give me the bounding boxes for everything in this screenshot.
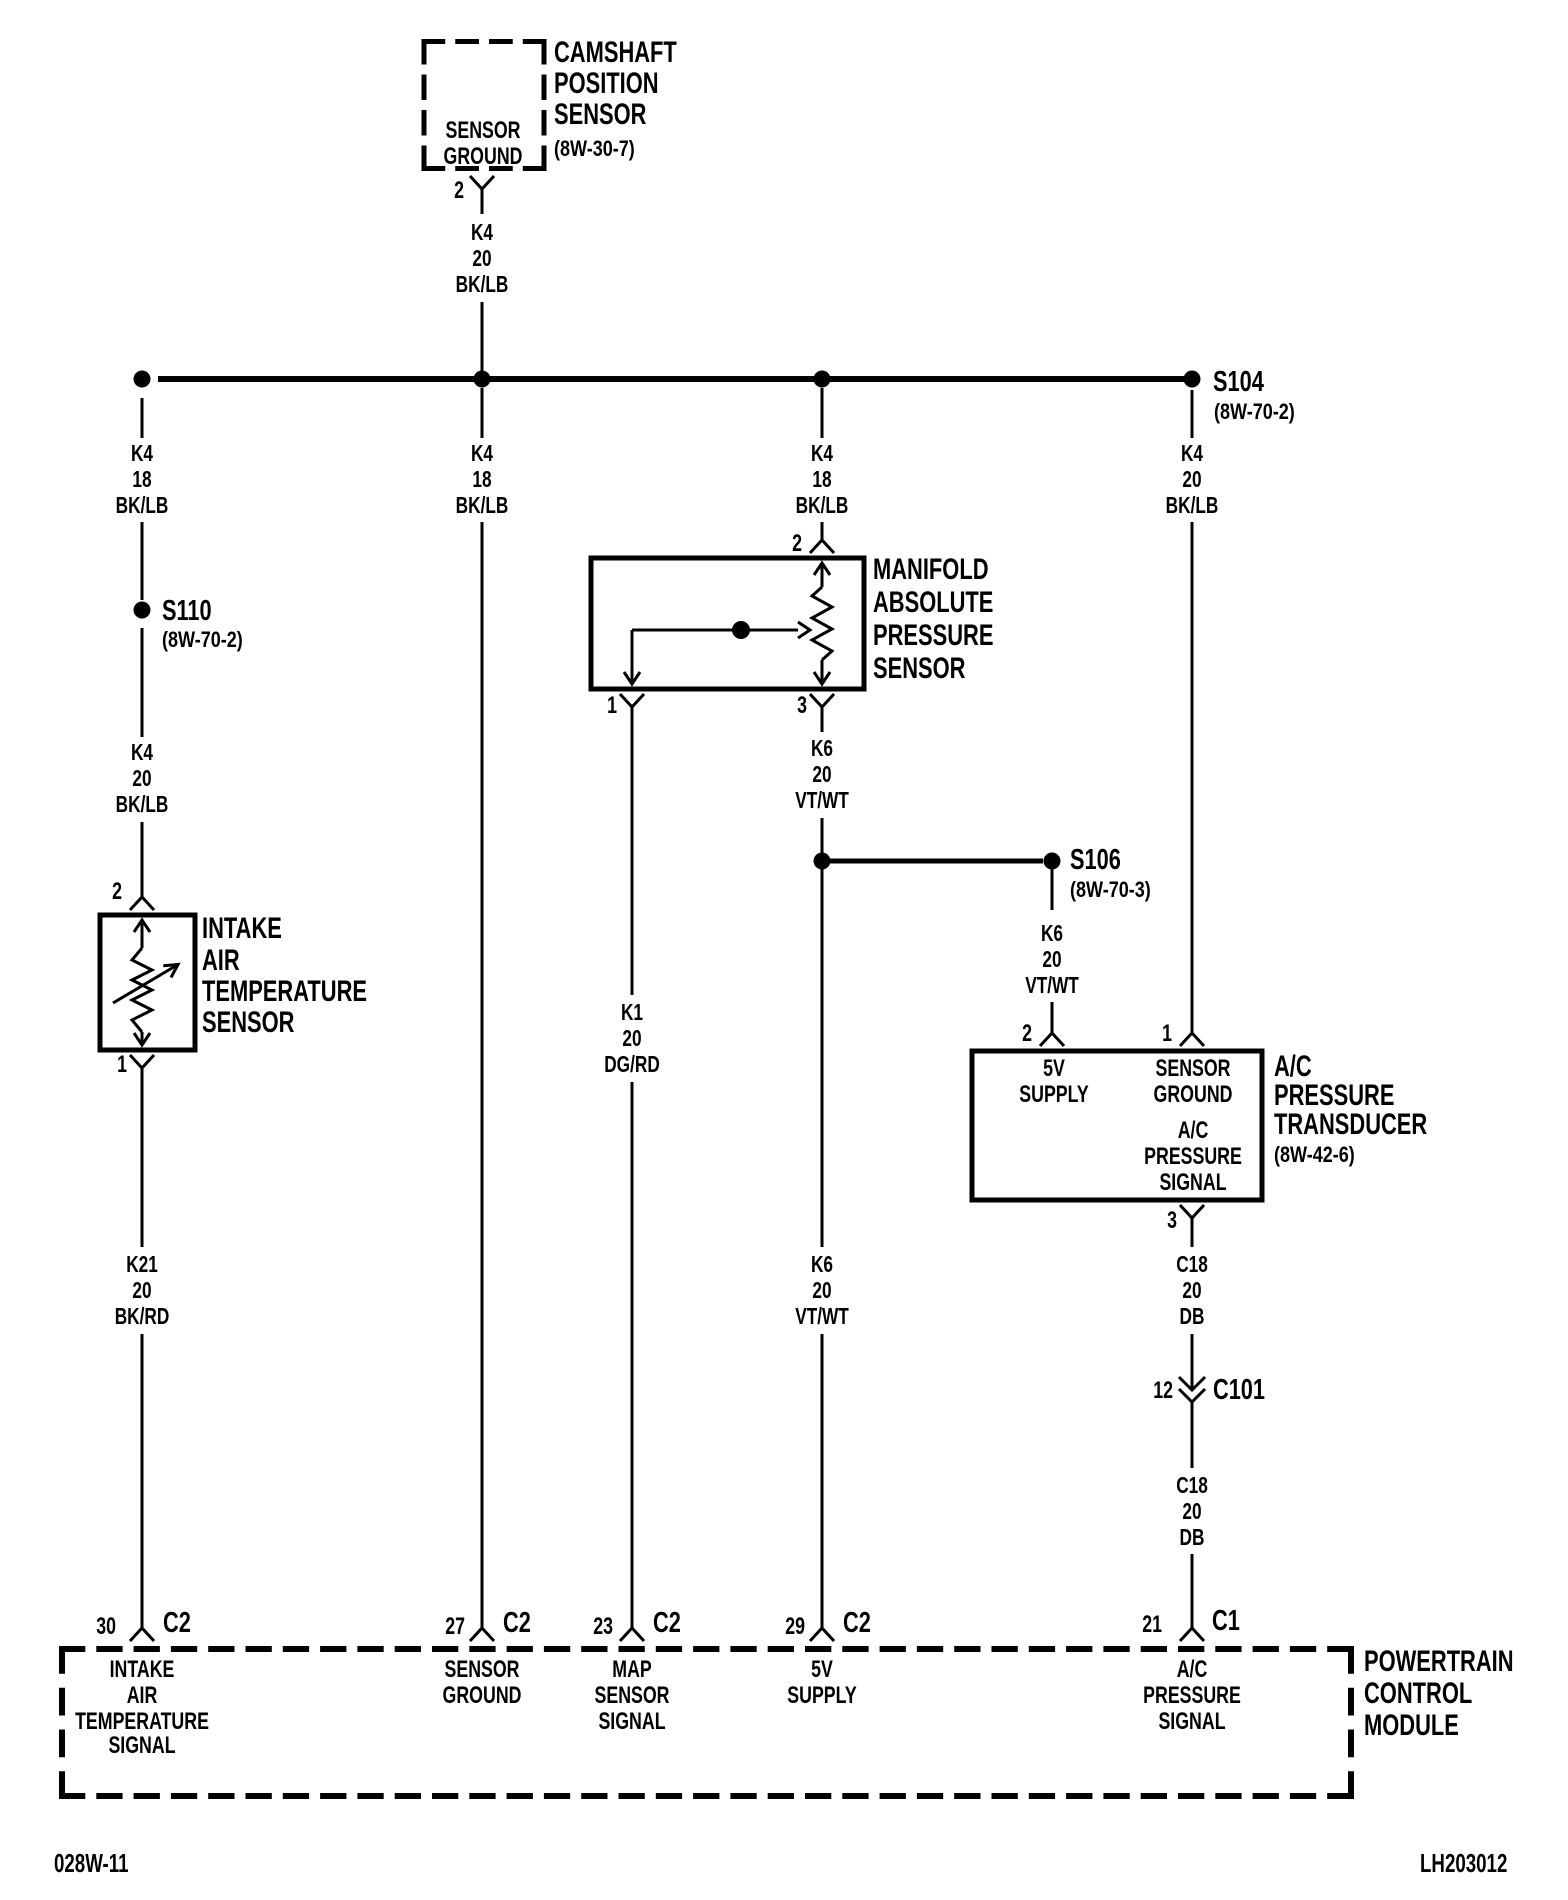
svg-text:K4: K4 — [471, 442, 494, 467]
wire label K4 20 BK/LB (branch F) — [1166, 442, 1219, 519]
wire label K1 20 DG/RD — [604, 1001, 660, 1078]
wire S110 down — [141, 628, 144, 737]
sheet code LH203012 — [1420, 1848, 1507, 1878]
svg-text:5V: 5V — [811, 1657, 833, 1683]
wire branch F to A/C transducer pin 1 — [1191, 522, 1194, 1033]
svg-text:C2: C2 — [503, 1607, 531, 1639]
in-line connector C101 (double chevron) — [1179, 1377, 1205, 1402]
connector designator C101 — [1213, 1374, 1265, 1406]
junction dot (bus, branch D) — [814, 371, 831, 388]
svg-text:A/C: A/C — [1177, 1657, 1208, 1683]
svg-text:LH203012: LH203012 — [1420, 1848, 1507, 1878]
pin 27 label — [445, 1614, 465, 1640]
wire C101 down — [1191, 1402, 1194, 1468]
svg-text:20: 20 — [132, 1279, 151, 1304]
svg-text:20: 20 — [1182, 1500, 1201, 1525]
wire to S106 splice — [830, 859, 1043, 864]
wire to A/C transducer pin 2 — [1051, 1002, 1054, 1033]
svg-text:DB: DB — [1180, 1526, 1205, 1551]
svg-text:SENSOR: SENSOR — [873, 651, 965, 685]
wire label C18 20 DB (lower) — [1176, 1474, 1208, 1551]
svg-text:21: 21 — [1142, 1612, 1162, 1638]
svg-text:BK/LB: BK/LB — [456, 273, 509, 298]
svg-text:PRESSURE: PRESSURE — [1143, 1683, 1241, 1709]
svg-text:23: 23 — [593, 1614, 613, 1640]
svg-text:K6: K6 — [811, 1253, 833, 1278]
svg-text:VT/WT: VT/WT — [795, 789, 849, 814]
pin 1 label (IAT sensor) — [117, 1052, 127, 1078]
wire branch D from bus — [821, 388, 824, 438]
svg-text:MODULE: MODULE — [1364, 1708, 1459, 1742]
svg-text:C1: C1 — [1212, 1605, 1240, 1637]
pin 23 label — [593, 1614, 613, 1640]
svg-text:TEMPERATURE: TEMPERATURE — [75, 1709, 209, 1735]
wire branch A to splice S110 — [141, 522, 144, 600]
svg-text:PRESSURE: PRESSURE — [873, 618, 993, 652]
connector designator C2 (pin 29) — [843, 1607, 871, 1639]
pin 2 label (A/C transducer) — [1022, 1021, 1032, 1047]
svg-text:K4: K4 — [1181, 442, 1204, 467]
svg-text:BK/LB: BK/LB — [456, 494, 509, 519]
svg-text:TEMPERATURE: TEMPERATURE — [202, 974, 367, 1008]
svg-text:SENSOR: SENSOR — [1155, 1056, 1230, 1082]
wire label K4 20 BK/LB (camshaft drop) — [456, 221, 509, 298]
svg-text:SUPPLY: SUPPLY — [787, 1683, 856, 1709]
svg-text:C2: C2 — [163, 1607, 191, 1639]
svg-text:3: 3 — [797, 693, 807, 719]
wire label K21 20 BK/RD — [115, 1253, 170, 1330]
wire label K4 18 BK/LB (branch A) — [116, 442, 169, 519]
svg-text:29: 29 — [785, 1614, 805, 1640]
svg-text:27: 27 — [445, 1614, 465, 1640]
svg-text:GROUND: GROUND — [443, 1683, 522, 1709]
title A/C PRESSURE TRANSDUCER (8W-42-6) — [1274, 1049, 1427, 1168]
connector fork pin 1 MAP — [620, 694, 644, 707]
svg-text:18: 18 — [812, 468, 831, 493]
wire label K6 20 VT/WT (branch E) — [1025, 922, 1079, 999]
svg-text:1: 1 — [607, 693, 617, 719]
svg-text:S106: S106 — [1070, 844, 1121, 876]
wire to PCM pin 21 — [1191, 1554, 1194, 1628]
junction dot on wiper arm — [732, 621, 750, 639]
label MAP SENSOR SIGNAL (PCM) — [594, 1657, 669, 1735]
connector fork pin 3 MAP — [810, 694, 834, 707]
svg-text:SIGNAL: SIGNAL — [1158, 1709, 1225, 1735]
svg-text:028W-11: 028W-11 — [54, 1848, 129, 1878]
label 5V SUPPLY inside A/C box — [1019, 1056, 1088, 1108]
wire to PCM pin 29 — [821, 1334, 824, 1628]
pin 30 label — [96, 1614, 116, 1640]
junction dot (branch D / S106 tap) — [814, 853, 831, 870]
svg-text:MAP: MAP — [612, 1657, 651, 1683]
connector designator C2 (pin 27) — [503, 1607, 531, 1639]
label SENSOR GROUND inside camshaft box — [444, 118, 523, 170]
wire IAT pin1 down — [141, 1068, 144, 1247]
svg-text:C18: C18 — [1176, 1253, 1208, 1278]
svg-text:(8W-70-2): (8W-70-2) — [1214, 400, 1295, 424]
svg-text:BK/RD: BK/RD — [115, 1305, 170, 1330]
title CAMSHAFT POSITION SENSOR (8W-30-7) — [554, 35, 677, 162]
splice dot S110 — [134, 602, 151, 619]
svg-text:BK/LB: BK/LB — [116, 494, 169, 519]
svg-text:K6: K6 — [1041, 922, 1063, 947]
connector fork PCM pin 29 — [810, 1628, 834, 1641]
connector fork pin 2 A/C transducer — [1040, 1033, 1064, 1046]
junction dot (bus, branch B) — [474, 371, 491, 388]
svg-text:K4: K4 — [131, 741, 154, 766]
connector fork pin 1 IAT — [130, 1055, 154, 1068]
svg-text:SUPPLY: SUPPLY — [1019, 1082, 1088, 1108]
svg-text:2: 2 — [112, 879, 122, 905]
svg-text:SENSOR: SENSOR — [594, 1683, 669, 1709]
connector designator C2 (pin 23) — [653, 1607, 681, 1639]
svg-text:(8W-42-6): (8W-42-6) — [1274, 1143, 1355, 1167]
sheet code 028W-11 — [54, 1848, 129, 1878]
svg-text:PRESSURE: PRESSURE — [1144, 1144, 1242, 1170]
svg-text:BK/LB: BK/LB — [1166, 494, 1219, 519]
wire branch F from S104 — [1191, 390, 1194, 438]
svg-text:5V: 5V — [1043, 1056, 1065, 1082]
wire branch B to PCM pin 27 — [481, 522, 484, 1628]
svg-text:12: 12 — [1153, 1378, 1173, 1404]
splice dot S106 — [1044, 853, 1061, 870]
svg-text:MANIFOLD: MANIFOLD — [873, 552, 989, 586]
wire label K4 20 BK/LB (branch A lower) — [116, 741, 169, 818]
label INTAKE AIR TEMPERATURE SIGNAL (PCM) — [75, 1657, 209, 1759]
svg-text:SENSOR: SENSOR — [202, 1005, 294, 1039]
wire branch D to MAP pin 2 — [821, 522, 824, 540]
connector fork pin 2 MAP — [810, 540, 834, 553]
svg-text:SIGNAL: SIGNAL — [108, 1733, 175, 1759]
wire label C18 20 DB (upper) — [1176, 1253, 1208, 1330]
connector designator C2 (pin 30) — [163, 1607, 191, 1639]
svg-text:30: 30 — [96, 1614, 116, 1640]
pin 2 label (camshaft) — [454, 178, 464, 204]
svg-text:18: 18 — [472, 468, 491, 493]
wire to splice S106 junction — [821, 818, 824, 853]
connector fork pin 2 camshaft — [470, 176, 494, 214]
svg-text:C18: C18 — [1176, 1474, 1208, 1499]
svg-text:1: 1 — [1162, 1021, 1172, 1047]
wire to IAT sensor pin 2 — [141, 822, 144, 897]
connector fork pin 1 A/C transducer — [1180, 1033, 1204, 1046]
wire label K6 20 VT/WT (lower) — [795, 1253, 849, 1330]
svg-text:K6: K6 — [811, 737, 833, 762]
wire to connector C101 — [1191, 1334, 1194, 1389]
camshaft position sensor box (dashed) — [422, 39, 547, 171]
title INTAKE AIR TEMPERATURE SENSOR — [202, 911, 367, 1039]
svg-text:3: 3 — [1167, 1208, 1177, 1234]
svg-text:VT/WT: VT/WT — [795, 1305, 849, 1330]
svg-text:SENSOR: SENSOR — [445, 118, 520, 144]
svg-text:C2: C2 — [843, 1607, 871, 1639]
svg-text:SIGNAL: SIGNAL — [1159, 1170, 1226, 1196]
title POWERTRAIN CONTROL MODULE — [1364, 1644, 1514, 1742]
svg-text:BK/LB: BK/LB — [796, 494, 849, 519]
svg-text:K4: K4 — [471, 221, 494, 246]
svg-text:(8W-30-7): (8W-30-7) — [554, 137, 635, 161]
pin 1 label (A/C transducer) — [1162, 1021, 1172, 1047]
svg-text:K21: K21 — [126, 1253, 158, 1278]
splice bus wire S104 — [158, 376, 1186, 382]
svg-text:20: 20 — [812, 763, 831, 788]
label 5V SUPPLY (PCM) — [787, 1657, 856, 1709]
wire label K4 18 BK/LB (branch B) — [456, 442, 509, 519]
pin 29 label — [785, 1614, 805, 1640]
svg-text:ABSOLUTE: ABSOLUTE — [873, 585, 993, 619]
potentiometer resistor inside MAP sensor — [812, 563, 832, 684]
svg-text:S110: S110 — [162, 595, 212, 627]
pin 2 label (MAP sensor) — [792, 531, 802, 557]
label SENSOR GROUND (PCM) — [443, 1657, 522, 1709]
pin 3 label (A/C transducer) — [1167, 1208, 1177, 1234]
junction dot (bus left, branch A) — [134, 371, 151, 388]
svg-text:20: 20 — [622, 1027, 641, 1052]
svg-text:S104: S104 — [1213, 366, 1264, 398]
svg-text:AIR: AIR — [202, 943, 240, 977]
svg-text:POWERTRAIN: POWERTRAIN — [1364, 1644, 1514, 1678]
label A/C PRESSURE SIGNAL (PCM) — [1143, 1657, 1241, 1735]
svg-text:20: 20 — [1182, 468, 1201, 493]
svg-text:CONTROL: CONTROL — [1364, 1676, 1472, 1710]
powertrain control module box (dashed) — [59, 1646, 1354, 1799]
svg-text:20: 20 — [1042, 948, 1061, 973]
wire to PCM pin 23 — [631, 1082, 634, 1628]
connector fork PCM pin 30 — [130, 1628, 154, 1641]
label SENSOR GROUND inside A/C box — [1154, 1056, 1233, 1108]
svg-text:2: 2 — [454, 178, 464, 204]
svg-text:INTAKE: INTAKE — [202, 911, 282, 945]
intake air temperature sensor box — [100, 915, 195, 1050]
svg-text:C101: C101 — [1213, 1374, 1265, 1406]
svg-text:K1: K1 — [621, 1001, 643, 1026]
svg-text:INTAKE: INTAKE — [110, 1657, 175, 1683]
svg-text:1: 1 — [117, 1052, 127, 1078]
label S106 (8W-70-3) — [1070, 844, 1151, 902]
wire label K4 18 BK/LB (branch D) — [796, 442, 849, 519]
svg-text:SENSOR: SENSOR — [444, 1657, 519, 1683]
svg-text:AIR: AIR — [127, 1683, 158, 1709]
pin 1 label (MAP sensor) — [607, 693, 617, 719]
svg-text:20: 20 — [812, 1279, 831, 1304]
label S110 (8W-70-2) — [162, 595, 243, 652]
svg-text:K4: K4 — [131, 442, 154, 467]
label S104 (8W-70-2) — [1213, 366, 1295, 424]
thermistor (variable resistor) inside IAT sensor — [132, 920, 152, 1045]
svg-text:DB: DB — [1180, 1305, 1205, 1330]
potentiometer wiper arm (MAP) — [624, 622, 810, 684]
svg-text:A/C: A/C — [1178, 1118, 1209, 1144]
svg-text:GROUND: GROUND — [1154, 1082, 1233, 1108]
wire branch D down to PCM pin 29 — [821, 869, 824, 1247]
wire camshaft drop to splice bus — [481, 302, 484, 379]
connector fork PCM pin 23 — [620, 1628, 644, 1641]
svg-text:VT/WT: VT/WT — [1025, 974, 1079, 999]
svg-text:18: 18 — [132, 468, 151, 493]
wire MAP pin 1 down — [631, 707, 634, 995]
svg-text:20: 20 — [1182, 1279, 1201, 1304]
wire MAP pin 3 down — [821, 707, 824, 732]
pin 2 label (IAT sensor) — [112, 879, 122, 905]
variable-resistor diagonal arrow (IAT) — [113, 965, 178, 1004]
svg-text:K4: K4 — [811, 442, 834, 467]
A/C pressure transducer box — [972, 1051, 1262, 1200]
svg-text:(8W-70-2): (8W-70-2) — [162, 628, 243, 652]
svg-text:TRANSDUCER: TRANSDUCER — [1274, 1107, 1427, 1141]
pin 21 label — [1142, 1612, 1162, 1638]
wire label K6 20 VT/WT (upper) — [795, 737, 849, 814]
svg-text:CAMSHAFT: CAMSHAFT — [554, 35, 677, 69]
svg-text:20: 20 — [472, 247, 491, 272]
connector fork PCM pin 27 — [470, 1628, 494, 1641]
svg-text:GROUND: GROUND — [444, 144, 523, 170]
title MANIFOLD ABSOLUTE PRESSURE SENSOR — [873, 552, 993, 685]
wire branch A from bus — [141, 398, 144, 438]
svg-text:2: 2 — [1022, 1021, 1032, 1047]
svg-text:SENSOR: SENSOR — [554, 97, 646, 131]
pin 12 label (C101) — [1153, 1378, 1173, 1404]
svg-text:BK/LB: BK/LB — [116, 793, 169, 818]
svg-text:C2: C2 — [653, 1607, 681, 1639]
wire branch B from bus — [481, 388, 484, 438]
wire to PCM pin 30 — [141, 1334, 144, 1628]
connector designator C1 (pin 21) — [1212, 1605, 1240, 1637]
connector fork pin 2 IAT — [130, 897, 154, 910]
wire A/C pin 3 down — [1191, 1218, 1194, 1247]
label A/C PRESSURE SIGNAL inside A/C box — [1144, 1118, 1242, 1196]
svg-text:POSITION: POSITION — [554, 66, 659, 100]
pin 3 label (MAP sensor) — [797, 693, 807, 719]
wire S106 down — [1051, 869, 1054, 910]
svg-text:(8W-70-3): (8W-70-3) — [1070, 878, 1151, 902]
svg-text:2: 2 — [792, 531, 802, 557]
svg-text:DG/RD: DG/RD — [604, 1053, 660, 1078]
svg-text:20: 20 — [132, 767, 151, 792]
junction dot / splice S104 — [1184, 371, 1201, 388]
connector fork PCM pin 21 — [1180, 1628, 1204, 1641]
manifold absolute pressure sensor box — [591, 558, 864, 689]
connector fork pin 3 A/C transducer — [1180, 1205, 1204, 1218]
svg-text:SIGNAL: SIGNAL — [598, 1709, 665, 1735]
